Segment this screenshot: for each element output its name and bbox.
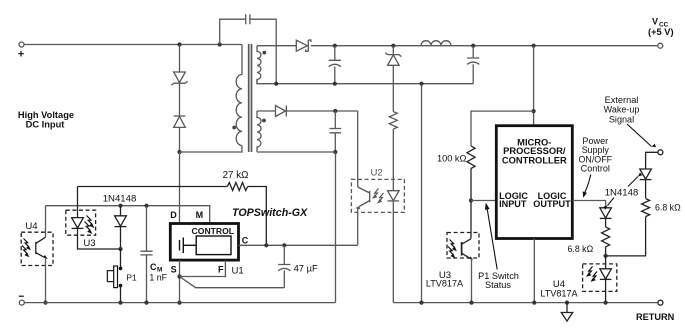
node: micro ground on return	[532, 301, 536, 305]
wire: drain down to U1 D pin	[179, 152, 181, 224]
svg-text:Signal: Signal	[609, 114, 634, 124]
wire: bias return	[257, 151, 335, 153]
svg-text:CONTROLLER: CONTROLLER	[502, 155, 567, 165]
svg-text:1 nF: 1 nF	[149, 272, 167, 282]
pushbutton P1	[120, 249, 122, 267]
resistor R27k	[78, 186, 228, 188]
wire: wake chain to join node	[606, 217, 646, 256]
wire: bias return to primary ground	[335, 152, 337, 303]
wire: primary bottom rail	[24, 302, 335, 304]
node: 100k branch	[532, 109, 536, 113]
node: 47u on C line	[282, 243, 286, 247]
node: bias cap bottom	[333, 150, 337, 154]
capacitor C4 47uF	[278, 245, 290, 287]
ground arrow symbol	[566, 303, 568, 313]
wire: schottky to Vcc rail	[311, 45, 658, 47]
wire: logic input pin	[471, 200, 496, 202]
wire: U3 LED cathode to P1 node	[78, 228, 121, 249]
phototransistor U4	[36, 237, 46, 257]
node: S-F junction	[177, 274, 181, 278]
optocoupler U4 phototransistor (dashed box)	[21, 232, 53, 265]
diode D6 1N4148 wake	[640, 169, 652, 198]
svg-text:OUTPUT: OUTPUT	[533, 199, 571, 209]
svg-text:F: F	[218, 265, 224, 275]
wire: U3 emitter to return rail	[471, 258, 473, 302]
wire: Vcc to micro supply	[533, 46, 535, 126]
diode D2 schottky output rectifier	[296, 40, 311, 51]
svg-text:1N4148: 1N4148	[605, 187, 639, 198]
node: chains join	[604, 254, 608, 258]
annotation arrow to upper 1N4148	[628, 177, 638, 187]
node: 27k on C line	[264, 243, 268, 247]
node: P1 top junction	[118, 247, 122, 251]
svg-text:DC Input: DC Input	[26, 120, 65, 130]
wire: return drop to RETURN rail	[421, 84, 423, 303]
wire: secondary return rail	[257, 80, 473, 84]
wire: wake terminal to diode	[646, 152, 658, 169]
zener VR2 sense	[385, 46, 401, 112]
terminal external wake-up	[658, 150, 663, 155]
svg-text:U3: U3	[83, 238, 95, 249]
U1 mosfet symbol	[180, 238, 197, 254]
U1 TOPSwitch box	[170, 224, 238, 261]
capacitor C3 bias	[330, 111, 342, 152]
resistor R2 sense	[389, 112, 397, 129]
wire: branch to 100k	[471, 111, 534, 146]
svg-text:47 µF: 47 µF	[294, 262, 318, 273]
micro-processor box	[496, 126, 572, 239]
annotation arrow to lower 1N4148	[608, 198, 615, 206]
wire: bias positive	[286, 110, 357, 112]
svg-text:LTV817A: LTV817A	[540, 288, 578, 298]
LED of U3	[72, 218, 84, 229]
svg-text:U1: U1	[232, 265, 244, 276]
phototransistor U3	[462, 239, 471, 258]
node: Y-cap on return rail	[274, 82, 278, 86]
wire: secondary top lead	[257, 45, 296, 47]
wire: 27k to U3 LED	[77, 187, 79, 218]
node: secondary polarity dot	[262, 51, 266, 55]
terminal - (DC input negative)	[19, 300, 24, 305]
node: drain junction	[177, 150, 181, 154]
wire: logic output pin	[572, 201, 605, 208]
svg-text:(+5 V): (+5 V)	[648, 27, 674, 37]
capacitor C2 output	[467, 46, 479, 84]
wire: clamp chain top	[179, 45, 181, 73]
svg-text:U2: U2	[371, 168, 383, 179]
node: U4 emitter on rail	[43, 301, 47, 305]
node: return drop joins	[419, 301, 423, 305]
LED of U4 secondary	[600, 269, 612, 303]
resistor R100k	[467, 146, 475, 169]
node: U4 LED on return	[604, 301, 608, 305]
node: 1N4148 top	[118, 204, 122, 208]
node: C2 top junction	[471, 44, 475, 48]
svg-text:CONTROL: CONTROL	[192, 226, 235, 236]
annotation arrow P1 switch status	[487, 210, 497, 270]
terminal + (DC input positive)	[19, 42, 24, 47]
svg-text:LTV817A: LTV817A	[426, 278, 464, 288]
svg-text:Wake-up: Wake-up	[604, 105, 640, 115]
zener VR1 (clamp)	[171, 72, 187, 85]
wire: C pin line	[239, 244, 358, 246]
LED of U2	[388, 169, 400, 303]
wire: 47u bottom to S	[180, 277, 285, 288]
node: ground arrow tap	[565, 301, 569, 305]
svg-text:S: S	[171, 265, 177, 275]
svg-text:INPUT: INPUT	[499, 199, 527, 209]
light arrows U4 LED	[587, 267, 597, 281]
svg-text:V: V	[652, 16, 658, 26]
annotation arrow to output pin	[585, 175, 591, 193]
svg-text:M: M	[196, 210, 204, 220]
wire: RETURN rail	[393, 302, 658, 304]
node: P1 bottom on rail	[118, 301, 122, 305]
svg-text:D: D	[170, 210, 177, 220]
transformer T1 bias winding	[257, 111, 261, 152]
svg-text:Control: Control	[581, 164, 610, 174]
svg-text:P1: P1	[126, 272, 137, 282]
phototransistor U2	[358, 187, 370, 245]
diode D1 (blocking, cathode up)	[174, 116, 186, 127]
svg-text:Status: Status	[485, 280, 511, 290]
node: zener chain top on Vcc rail	[391, 44, 395, 48]
wire: M-pin rail	[46, 206, 210, 224]
wire: join node to U4 LED	[605, 256, 607, 269]
node: C1 top junction	[333, 44, 337, 48]
resistor R6.8k A	[602, 227, 610, 247]
annotation arrow to wake terminal	[627, 124, 652, 147]
resistor R6.8k B	[642, 199, 650, 217]
terminal RETURN	[658, 300, 663, 305]
capacitor C1 output	[329, 46, 341, 84]
wire	[605, 247, 607, 256]
svg-text:External: External	[605, 95, 639, 105]
node: return drop on rail	[419, 82, 423, 86]
svg-text:C: C	[150, 262, 157, 272]
node: cancellation cap branch on input rail	[218, 42, 222, 46]
svg-text:RETURN: RETURN	[636, 312, 675, 322]
node: U3 emitter on return	[469, 301, 473, 305]
diode D5 1N4148 output-side	[600, 208, 612, 227]
node: clamp chain junction on input rail	[177, 42, 181, 46]
node: S line on rail	[177, 301, 181, 305]
LED arrows U3	[85, 216, 94, 233]
wire: 100k to logic input node	[470, 169, 472, 239]
capacitor CM	[140, 206, 152, 303]
svg-text:1N4148: 1N4148	[103, 194, 137, 205]
wire: micro ground	[533, 239, 535, 303]
wire: bias winding top lead	[257, 110, 276, 112]
light arrows U2	[373, 189, 383, 203]
wire: S pin down	[179, 260, 181, 303]
diode D4 1N4148	[115, 206, 127, 249]
svg-text:27 kΩ: 27 kΩ	[223, 170, 249, 181]
node: bias polarity dot	[262, 119, 266, 123]
svg-text:High Voltage: High Voltage	[18, 110, 74, 120]
transformer T1 secondary winding	[257, 46, 261, 84]
optocoupler U2 (dashed box, gray)	[351, 179, 404, 212]
U1 inner control block	[196, 236, 231, 255]
light arrows U3s	[448, 240, 456, 258]
optocoupler U3 LED (dashed box)	[66, 210, 96, 235]
svg-text:U4: U4	[25, 221, 38, 232]
svg-text:100 kΩ: 100 kΩ	[437, 154, 466, 164]
wire: drain node to primary bottom	[180, 146, 243, 153]
wire: U4 emitter to ground rail	[45, 258, 47, 303]
wire: U4 collector from M rail	[45, 206, 47, 238]
inductor L1	[421, 41, 451, 46]
terminal Vcc	[658, 43, 663, 48]
node: primary polarity dot	[232, 126, 236, 130]
wire	[179, 83, 181, 115]
node: C1 bottom	[333, 82, 337, 86]
wire: clamp to drain node	[179, 127, 181, 152]
node: logic input junction	[469, 198, 473, 202]
svg-text:6.8 kΩ: 6.8 kΩ	[568, 244, 594, 254]
node: CM top	[144, 204, 148, 208]
node: CM bottom on rail	[144, 301, 148, 305]
optocoupler U3 phototransistor (dashed box)	[447, 233, 479, 259]
svg-text:TOPSwitch-GX: TOPSwitch-GX	[232, 207, 308, 219]
transformer T1 primary winding	[236, 45, 242, 146]
diode D3 bias rectifier	[276, 106, 287, 117]
node: bias cap top	[333, 109, 337, 113]
svg-text:6.8 kΩ: 6.8 kΩ	[655, 202, 681, 212]
optocoupler U4 LED (dashed box)	[583, 264, 617, 292]
capacitor: cancellation cap top	[220, 19, 277, 84]
transformer T1 core	[249, 44, 252, 152]
node: Vcc feed junction	[532, 44, 536, 48]
wire: P1 to ground rail	[120, 286, 122, 303]
wire: U2 collector drop	[357, 111, 359, 187]
light arrows U4	[22, 239, 30, 257]
wire: top input rail	[24, 44, 242, 46]
svg-text:C: C	[242, 236, 249, 246]
wire: F pin	[180, 260, 226, 276]
